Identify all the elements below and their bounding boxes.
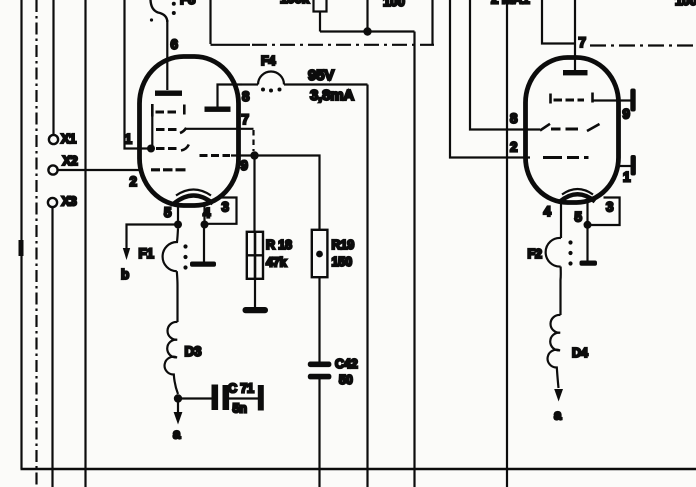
wire top to pin 2 of V2 — [450, 0, 530, 158]
dash-dot fold centerline — [35, 0, 37, 487]
svg-text:47k: 47k — [266, 256, 288, 270]
svg-text:3: 3 — [606, 200, 613, 215]
wire top to pin 1 — [125, 0, 151, 149]
svg-text:100: 100 — [675, 0, 696, 8]
border frame left edge — [20, 0, 22, 469]
wire C42 to bottom rail — [318, 379, 320, 487]
wire pin 9 (V2) — [593, 99, 631, 101]
pin label 2 (V1) — [130, 174, 137, 189]
tube V2 envelope — [526, 58, 619, 203]
svg-text:9: 9 — [623, 107, 630, 122]
svg-text:1: 1 — [623, 170, 631, 185]
dash-dot section divider vertical — [209, 0, 211, 44]
wire F3 to tube anode pin 6 — [166, 20, 168, 90]
pin label 2 (V2) — [510, 140, 517, 155]
label 3,8mA — [310, 87, 354, 104]
pin 9 terminal bar (V2) — [623, 89, 636, 122]
V1 grid row D — [151, 168, 186, 171]
F3 core dots — [150, 2, 176, 22]
wire top corner to pin 7 — [542, 0, 575, 44]
wire from top — [366, 0, 368, 32]
wire F1 to D3 — [176, 271, 179, 322]
F4 core dots — [261, 88, 282, 93]
svg-text:F4: F4 — [261, 54, 275, 68]
wire pin 1 (V2) — [617, 165, 631, 167]
wire down right rail — [413, 32, 415, 487]
V1 grid row B — [156, 128, 254, 133]
pin label 6 — [171, 37, 178, 52]
pin label 1 — [125, 132, 133, 147]
svg-text:b: b — [121, 267, 129, 282]
V1 pin 4 stem — [203, 203, 205, 222]
arrow b — [121, 248, 130, 282]
svg-text:a: a — [554, 408, 562, 423]
svg-text:1: 1 — [125, 132, 133, 147]
V2 grid row 3 — [543, 156, 589, 159]
label 95V — [308, 67, 334, 84]
V2 anode plate — [563, 70, 588, 75]
svg-text:5: 5 — [575, 210, 583, 225]
svg-text:X2: X2 — [63, 154, 78, 168]
wire pin5 to b arrow — [127, 225, 179, 249]
wire pin 7 drop (dashed) — [252, 130, 254, 151]
svg-text:50: 50 — [339, 373, 353, 387]
V1 grid row A — [152, 104, 184, 117]
long vertical wire — [506, 0, 508, 487]
terminal X1 — [49, 132, 76, 146]
svg-text:2 MA1: 2 MA1 — [491, 0, 530, 7]
wire X2 to tube pin 2 — [58, 169, 140, 171]
pin label 4 (V1) — [203, 206, 211, 221]
node pin 7/9 junction — [250, 151, 258, 159]
V1 anode 1 plate — [155, 91, 182, 96]
svg-text:2: 2 — [510, 140, 517, 155]
svg-text:95V: 95V — [308, 67, 334, 84]
long vertical bus wire — [84, 0, 86, 487]
pin 3 bracket box (V2) — [591, 198, 620, 226]
wire F2 to D4 — [559, 267, 561, 316]
resistor stub at top edge — [280, 0, 327, 32]
svg-text:5: 5 — [164, 205, 172, 220]
wire R19 to C42 — [318, 277, 320, 362]
svg-text:3: 3 — [222, 200, 229, 215]
label 2 MAT partial — [491, 0, 530, 7]
coil D4 — [548, 315, 588, 388]
cathode ground stem — [203, 225, 205, 263]
svg-text:F1: F1 — [139, 246, 155, 261]
wire to X1 — [52, 0, 54, 135]
svg-text:100: 100 — [383, 0, 405, 9]
svg-text:7: 7 — [579, 35, 586, 50]
svg-text:150: 150 — [332, 255, 353, 269]
pin label 5 (V2) — [575, 210, 583, 225]
node pin 4 — [201, 221, 209, 229]
svg-text:8: 8 — [510, 111, 518, 126]
V1 pin 5 stem — [177, 204, 179, 221]
svg-text:C42: C42 — [335, 357, 358, 371]
capacitor C42 — [308, 357, 358, 387]
pin label 9 (V1) — [241, 158, 248, 173]
svg-text:9: 9 — [241, 158, 248, 173]
pin label 4 (V2) — [544, 204, 552, 219]
terminal X2 — [48, 154, 77, 175]
svg-text:D3: D3 — [185, 344, 202, 359]
V2 pin 4 stem — [560, 201, 562, 239]
F1 core dots — [183, 244, 187, 269]
blob on border — [19, 240, 24, 256]
svg-text:X1: X1 — [61, 132, 76, 146]
value 100 — [383, 0, 405, 9]
V1 grid connector wire — [151, 112, 153, 149]
svg-text:7: 7 — [242, 112, 249, 127]
arrow a (right) — [554, 389, 563, 423]
svg-text:4: 4 — [544, 204, 552, 219]
stub wire top — [431, 0, 433, 46]
svg-text:100k: 100k — [280, 0, 310, 6]
border frame bottom line — [21, 468, 696, 471]
coil F2 — [528, 238, 562, 267]
capacitor C71 — [212, 382, 264, 416]
svg-text:2: 2 — [130, 174, 137, 189]
svg-text:a: a — [173, 427, 181, 442]
svg-text:F3: F3 — [180, 0, 195, 7]
cathode ground bar — [190, 262, 216, 267]
wire 95V rail down — [366, 85, 368, 487]
svg-text:5n: 5n — [233, 402, 247, 416]
wire top to pin 8 of V2 — [470, 0, 540, 130]
resistor R18 — [247, 232, 292, 279]
terminal X3 — [48, 195, 77, 209]
node top junction — [363, 27, 371, 35]
pin label 5 (V1) — [164, 205, 172, 220]
svg-text:R19: R19 — [332, 238, 355, 252]
V1 anode 2 plate — [205, 85, 243, 112]
V1 cathode — [174, 190, 213, 204]
coil F3 (partial, top edge) — [151, 0, 196, 22]
wire node9 to R18 — [253, 156, 255, 233]
wire to C71 — [182, 397, 212, 399]
F2 core dots — [568, 240, 572, 265]
node below D3 — [174, 394, 182, 402]
wire from X3 down — [51, 207, 53, 487]
coil D3 — [165, 322, 202, 394]
wire node9 to R19 — [259, 156, 320, 231]
V2 cathode ground stem — [586, 225, 588, 261]
svg-text:F2: F2 — [528, 247, 542, 261]
V2 pin 5 stem — [586, 199, 588, 221]
pin label 7 (V2) — [579, 35, 586, 50]
V2 grid row 2 — [540, 124, 600, 131]
coil F1 — [139, 229, 179, 272]
dash-dot divider right — [590, 44, 696, 46]
pin 1 terminal bar (V2) — [623, 155, 636, 185]
pin label 7 (V1) — [242, 112, 249, 127]
svg-text:D4: D4 — [572, 346, 588, 360]
tube V1 envelope — [140, 57, 239, 206]
node pin 5 — [174, 221, 182, 229]
V1 grid row A2 — [156, 145, 189, 151]
svg-text:R 18: R 18 — [266, 238, 292, 252]
svg-text:C 71: C 71 — [228, 382, 254, 396]
wire top node row — [320, 30, 415, 32]
node pin1 junction — [147, 145, 155, 153]
node pin 5 (V2) — [584, 221, 592, 229]
coil F4 — [242, 54, 368, 85]
label 100 top right partial — [675, 0, 696, 8]
pin label 8 (V2) — [510, 111, 518, 126]
pin 3 bracket box (V1) — [208, 198, 237, 224]
svg-text:6: 6 — [171, 37, 178, 52]
V2 cathode ground bar — [580, 261, 598, 266]
arrow a (left) — [173, 399, 182, 442]
svg-text:X3: X3 — [62, 195, 77, 209]
V2 cathode — [560, 189, 595, 202]
svg-text:4: 4 — [203, 206, 211, 221]
dash-dot section divider horizontal — [211, 44, 435, 46]
R18 ground stem — [254, 279, 256, 308]
ground bar under R18 — [243, 307, 269, 313]
wire pin 7 of V2 — [574, 0, 576, 71]
pin label 8 (V1) — [242, 89, 250, 104]
resistor R19 — [312, 230, 354, 277]
svg-text:3,8mA: 3,8mA — [310, 87, 354, 104]
svg-text:8: 8 — [242, 89, 250, 104]
V1 grid row C — [200, 154, 251, 157]
V2 grid row 1 — [551, 93, 593, 104]
